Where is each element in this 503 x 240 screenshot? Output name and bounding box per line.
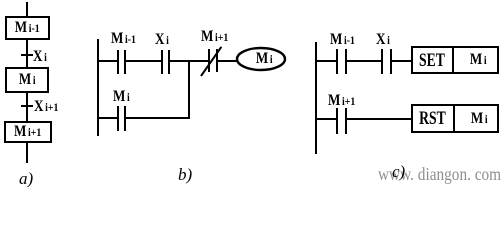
left power rail part c [315,42,317,154]
contact Mi+1 bar1 (c) [336,108,338,134]
label Mi-1 part c [330,32,355,48]
step box Mi part a [5,67,49,93]
NC contact slash [198,44,226,80]
RST box divider [453,104,455,133]
label SET [411,46,453,74]
contact Mi+1 bar2 (c) [345,108,347,134]
contact Mi-1 bar2 [124,50,126,74]
wire below box a3 [26,143,28,163]
contact Mi-1 bar1 (c) [336,49,338,74]
contact Xi bar2 [168,50,170,74]
wire rung2 b rail to contact Mi [99,117,117,119]
wire rung2 b contact Mi to junction [126,117,190,119]
step box M(i+1) part a [4,121,52,143]
label RST [411,104,453,133]
contact Mi-1 bar1 [117,50,119,74]
label Mi-1 part b [111,31,136,47]
label Mi+1 part c [328,93,355,109]
SET function box [411,46,499,74]
label Mi-1 in step box a1 [5,16,50,40]
label Xi part b [155,32,169,48]
contact Xi bar2 (c) [390,49,392,74]
contact Mi-1 bar2 (c) [345,49,347,74]
wire top of part a [26,2,28,16]
junction vertical wire part b [188,60,190,119]
wire rung1 b contact Mi-1 to contact Xi [126,60,161,62]
label Mi in RST box [457,104,501,133]
contact Mi bar2 (rung2 b) [124,106,126,131]
wire between box a2 and box a3 [26,93,28,121]
label Mi in SET box [456,46,501,74]
SET box divider [452,46,454,74]
NC contact Mi+1 bar2 [216,49,218,72]
coil Mi ellipse [235,46,287,72]
label Mi inside coil [240,48,288,70]
caption b) [178,166,192,183]
wire rung1 b contact Xi to NC contact [170,60,208,62]
label Xi+1 part a [34,99,58,115]
label Mi part b rung2 [113,89,130,105]
wire rung1 b NC contact to coil [218,60,238,62]
label Mi+1 part b [201,29,228,45]
wire rung1 c contact Mi-1 to contact Xi [347,60,381,62]
step box M(i-1) part a [5,16,50,40]
NC contact Mi+1 bar1 [208,49,210,72]
wire rung1 c rail to contact Mi-1 [317,60,336,62]
contact Xi bar1 [161,50,163,74]
wire rung2 c rail to contact Mi+1 [317,118,336,120]
RST function box [411,104,499,133]
transition tick Xi+1 part a [21,105,33,107]
transition tick Xi part a [21,54,33,56]
left power rail part b [97,39,99,136]
label Xi part a [33,49,47,65]
caption a) [19,170,33,187]
wire between box a1 and box a2 [26,40,28,67]
watermark www.diangon.com [378,165,501,183]
label Mi in step box a2 [5,67,49,93]
contact Xi bar1 (c) [381,49,383,74]
contact Mi bar1 (rung2 b) [117,106,119,131]
wire rung1 c contact Xi to SET box [392,60,412,62]
label Xi part c [376,32,390,48]
wire rung2 c contact Mi+1 to RST box [347,118,412,120]
label Mi+1 in step box a3 [4,121,52,143]
caption c) [392,163,405,180]
wire rung1 b rail to contact Mi-1 [99,60,117,62]
